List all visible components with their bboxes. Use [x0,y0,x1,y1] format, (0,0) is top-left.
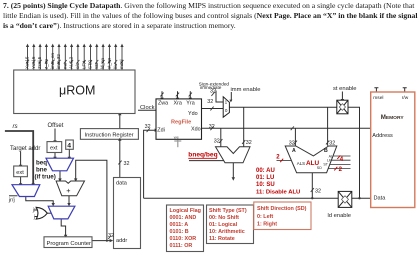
svg-text:Target addr: Target addr [10,146,40,152]
svg-text:s/s: s/s [75,62,80,69]
svg-text:2: 2 [276,155,280,161]
svg-text:B: B [324,148,328,154]
svg-text:data: data [116,181,128,187]
svg-text:Xdo: Xdo [191,126,201,132]
svg-text:11: Rotate: 11: Rotate [209,236,235,242]
svg-text:Xra: Xra [174,101,182,107]
svg-text:me: me [62,62,67,69]
svg-text:we: we [174,135,180,140]
svg-text:32: 32 [108,233,114,239]
svg-text:Zsel,5: Zsel,5 [37,56,42,69]
svg-text:addr: addr [116,238,127,244]
svg-text:Zwa: Zwa [158,101,168,107]
svg-text:2: 2 [339,167,343,173]
svg-text:Yra: Yra [186,101,194,107]
svg-text:32: 32 [207,99,213,105]
svg-text:0101: B: 0101: B [170,229,189,235]
svg-text:Program Counter: Program Counter [47,241,92,247]
svg-text:Offset: Offset [48,123,64,129]
svg-text:0111: OR: 0111: OR [170,243,193,249]
svg-text:0011: A: 0011: A [170,222,189,228]
svg-text:01: LU: 01: LU [256,175,274,181]
svg-text:00: No Shift: 00: No Shift [209,215,239,221]
svg-text:bneq/beq: bneq/beq [188,152,217,159]
svg-text:32: 32 [209,124,215,130]
svg-text:msel: msel [373,95,383,101]
svg-text:0110: XOR: 0110: XOR [170,236,197,242]
svg-text:ALS: ALS [297,161,305,166]
svg-text:jr/j: jr/j [8,198,15,204]
svg-text:msel: msel [119,59,124,69]
svg-text:μROM: μROM [59,84,95,98]
svg-text:4: 4 [67,142,71,149]
svg-text:ld enable: ld enable [328,213,352,219]
svg-text:r/w: r/w [402,95,409,101]
svg-text:32: 32 [289,140,295,146]
svg-text:ld_en: ld_en [100,57,105,69]
svg-text:Logical Flag: Logical Flag [170,208,201,214]
svg-text:SD: SD [94,62,99,69]
svg-text:0001: AND: 0001: AND [170,215,197,221]
svg-text:imm,32: imm,32 [56,54,61,69]
svg-text:LF,4: LF,4 [81,60,86,69]
svg-text:l/w: l/w [113,63,118,69]
svg-text:bne: bne [36,166,48,173]
svg-text:Instruction Register: Instruction Register [85,132,134,138]
svg-text:ALU: ALU [306,160,320,167]
svg-text:00: AU: 00: AU [256,168,275,174]
svg-text:0: 0 [225,108,228,113]
svg-text:Clock: Clock [140,105,155,111]
svg-text:32: 32 [145,124,151,130]
svg-text:10: Arithmetic: 10: Arithmetic [209,229,245,235]
svg-text:ext: ext [16,170,24,176]
svg-text:ext: ext [50,146,58,152]
svg-text:A: A [292,148,296,154]
svg-text:ST: ST [323,162,328,166]
svg-text:32: 32 [214,139,220,145]
svg-text:RegFile: RegFile [171,119,191,125]
svg-text:Address: Address [372,133,393,139]
svg-text:32: 32 [124,161,130,167]
svg-text:11: Disable ALU: 11: Disable ALU [256,189,300,195]
svg-text:Ysel,5: Ysel,5 [31,56,36,69]
svg-text:10: SU: 10: SU [256,182,275,188]
svg-text:Shift Direction (SD): Shift Direction (SD) [257,206,307,212]
svg-text:01: Logical: 01: Logical [209,222,238,228]
svg-text:32: 32 [210,89,216,95]
svg-text:Zdi: Zdi [157,127,165,133]
svg-text:ST,2: ST,2 [88,59,93,69]
svg-text:Ydo: Ydo [188,111,198,117]
svg-text:MEMORY: MEMORY [381,114,405,121]
svg-text:1: Right: 1: Right [257,222,277,228]
svg-text:Data: Data [374,196,387,202]
svg-text:st_en: st_en [107,57,112,69]
svg-text:imm_en: imm_en [50,52,55,69]
svg-text:Shift Type (ST): Shift Type (ST) [209,208,247,214]
svg-text:32: 32 [315,189,321,195]
svg-text:z_en: z_en [44,59,49,69]
svg-text:rs: rs [13,123,18,130]
svg-text:j: j [33,214,35,220]
svg-text:32: 32 [329,140,335,146]
svg-text:Xsel,5: Xsel,5 [25,56,30,69]
svg-text:32: 32 [246,140,252,146]
svg-text:(if true): (if true) [35,174,56,181]
svg-text:jr: jr [32,208,36,214]
svg-text:ALS,2: ALS,2 [69,56,74,69]
svg-text:beq: beq [36,159,47,166]
svg-text:st enable: st enable [333,86,357,92]
svg-text:+: + [66,186,70,195]
svg-text:0: Left: 0: Left [257,214,273,220]
svg-text:imm enable: imm enable [231,87,261,93]
svg-text:1: 1 [225,99,228,104]
